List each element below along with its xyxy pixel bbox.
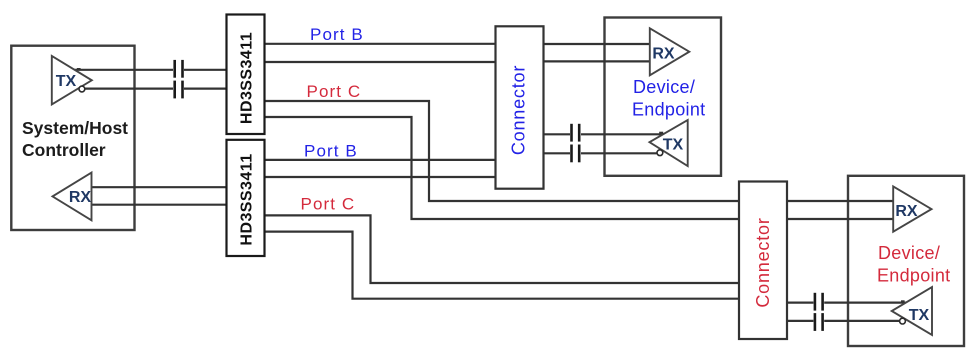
wire U2 Port C- to connector J2 [263, 232, 741, 299]
wire J1 to device1 RX+ [542, 43, 650, 45]
svg-text:Port B: Port B [304, 141, 358, 160]
wire U1 Port C- to connector J2 [263, 117, 741, 219]
Device/Endpoint box 1 [605, 18, 722, 176]
capacitor C2 plates [173, 81, 176, 99]
svg-text:TX: TX [663, 136, 684, 153]
svg-text:RX: RX [69, 189, 92, 206]
wire RX1+ from mux U2 [92, 186, 229, 188]
svg-text:HD3SS3411: HD3SS3411 [239, 32, 256, 124]
wire J1 to cap C3 [542, 133, 570, 135]
wire TX1+ to cap C1 [75, 69, 174, 71]
svg-text:Port B: Port B [310, 25, 364, 44]
svg-text:TX: TX [56, 73, 77, 90]
svg-text:Device/: Device/ [878, 243, 940, 263]
TX buffer (host) triangle [52, 56, 92, 105]
wire J2 to device2 RX+ [785, 200, 893, 202]
svg-text:Endpoint: Endpoint [877, 266, 950, 286]
capacitor C6 plates [814, 313, 817, 331]
svg-text:Port C: Port C [307, 82, 362, 101]
TX device2 inversion bubble [900, 318, 906, 324]
capacitor C3 plates [570, 124, 573, 142]
TX device1 inversion bubble [657, 150, 663, 156]
svg-text:RX: RX [652, 46, 675, 63]
svg-text:TX: TX [909, 307, 930, 324]
mux U1 HD3SS3411 box [227, 15, 265, 135]
mux U2 HD3SS3411 box [227, 140, 265, 256]
svg-text:System/Host: System/Host [22, 118, 128, 138]
wire U2 Port B+ to connector J1 [263, 159, 497, 161]
TX device1 junction nub [659, 132, 663, 135]
wire TX1- to cap C2 [84, 87, 173, 89]
wire U2 Port B- to connector J1 [263, 176, 497, 178]
svg-text:HD3SS3411: HD3SS3411 [239, 153, 256, 245]
svg-text:Controller: Controller [22, 140, 106, 160]
RX buffer (device2) triangle [893, 186, 931, 231]
svg-text:Connector: Connector [509, 65, 529, 155]
wire J2 to cap C5 [785, 302, 813, 304]
TX buffer (device2) triangle [892, 287, 932, 335]
wire RX1- from mux U2 [92, 204, 229, 206]
TX buffer (device1) triangle [650, 120, 688, 166]
wire cap C3 to device1 TX+ [581, 133, 664, 135]
connector J1 box [496, 26, 544, 188]
wire cap C4 to device1 TX- bubble [581, 152, 657, 154]
svg-text:Port C: Port C [301, 194, 356, 213]
wire U1 Port B- to connector J1 [263, 61, 497, 63]
wire cap C2 to mux U1 [184, 87, 228, 89]
wire U2 Port C+ to connector J2 [263, 215, 741, 283]
TX device2 junction nub [901, 300, 905, 302]
wire J1 to device1 RX- [542, 60, 650, 62]
wire cap C5 to device2 TX+ [824, 302, 905, 304]
wire U1 Port B+ to connector J1 [263, 43, 497, 45]
wire J2 to cap C6 [785, 320, 813, 322]
wire U1 Port C+ to connector J2 [263, 101, 741, 201]
TX host junction nub [77, 68, 81, 71]
capacitor C5 plates [814, 293, 817, 311]
svg-text:RX: RX [895, 203, 918, 220]
System/Host Controller box [11, 46, 134, 230]
wire cap C1 to mux U1 [184, 69, 228, 71]
RX buffer (host) triangle [53, 173, 92, 221]
RX buffer (device1) triangle [650, 28, 690, 75]
wire cap C6 to device2 TX- bubble [824, 320, 899, 322]
wire J2 to device2 RX- [785, 218, 893, 220]
capacitor C1 plates [173, 60, 176, 78]
svg-text:Connector: Connector [753, 217, 773, 307]
capacitor C4 plates [570, 145, 573, 163]
wire J1 to cap C4 [542, 152, 570, 154]
TX host inversion bubble [79, 86, 85, 92]
connector J2 box [739, 182, 787, 340]
Device/Endpoint box 2 [848, 176, 964, 346]
svg-text:Device/: Device/ [633, 77, 695, 97]
svg-text:Endpoint: Endpoint [632, 100, 705, 120]
